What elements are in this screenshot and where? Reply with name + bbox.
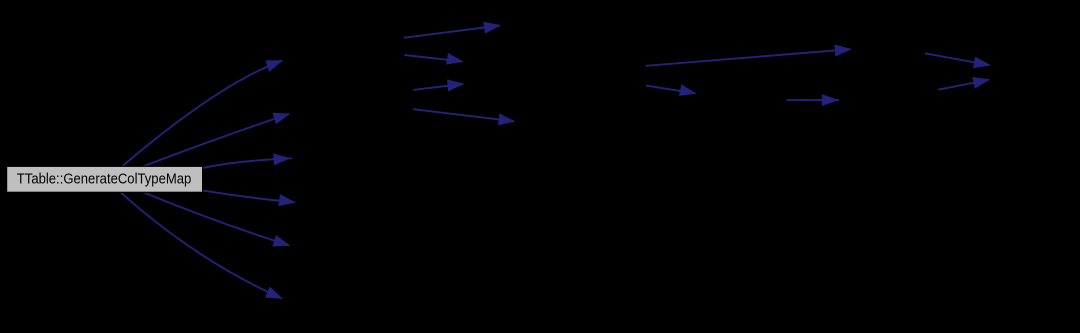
svg-text:TTable::GenerateColTypeMap: TTable::GenerateColTypeMap <box>17 170 192 187</box>
edge node2->node8 (2a) <box>404 22 500 38</box>
edge node12->node16 (4a) <box>925 53 989 67</box>
edge main->node6 (curve E) <box>141 191 289 246</box>
junction dot at tip of edge 3c <box>837 99 839 101</box>
edge main->node7 (curve F) <box>118 190 282 298</box>
node TTable::GenerateColTypeMap (current node box) <box>7 166 203 192</box>
edge node3->node11 (2d) <box>413 109 514 125</box>
edge node14->node15 (3c) <box>787 95 838 106</box>
edge node2->node9 (2b) <box>404 54 462 64</box>
edge main->node3 (curve B) <box>139 113 289 168</box>
junction dot at tip of curve C <box>290 158 292 160</box>
edge node17->node16 (4b) <box>938 78 989 90</box>
edge main->node4 (curve C) <box>202 154 289 168</box>
edge main->node2 (curve A) <box>120 61 282 169</box>
edge node3->node10 (2c) <box>413 80 463 91</box>
edge main->node5 (curve D) <box>203 190 295 205</box>
edge node8->node12 (3a) <box>646 45 851 66</box>
edge node8->node13 (3b) <box>646 85 695 95</box>
